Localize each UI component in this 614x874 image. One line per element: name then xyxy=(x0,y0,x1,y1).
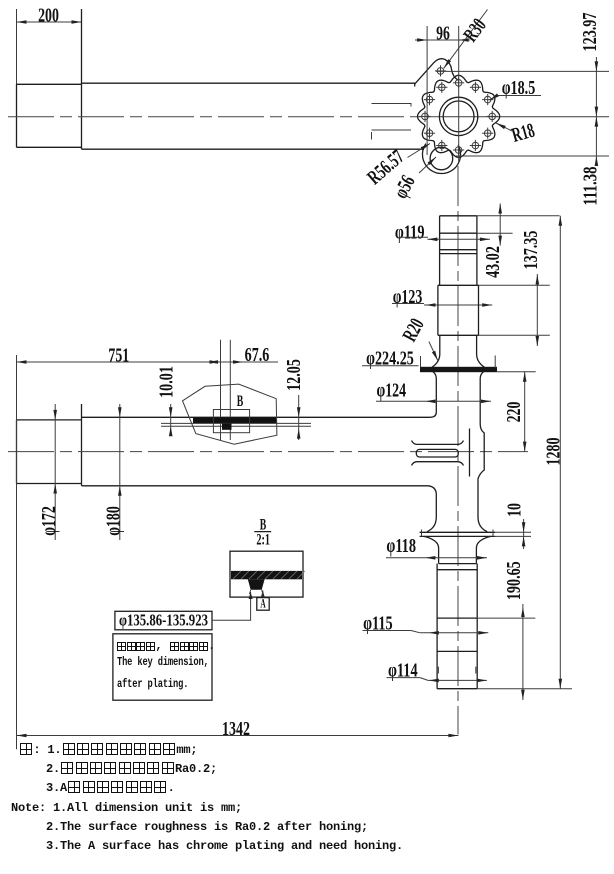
step line phi114 xyxy=(437,650,477,652)
dimension 1280 line with arrows xyxy=(559,216,561,689)
extension line from ear hole to right edge xyxy=(436,70,609,72)
dimension 200 line with arrows xyxy=(17,21,82,23)
dimension 200 extension line left xyxy=(16,9,18,147)
note box line 1 chinese: key dimension after plating xyxy=(117,639,215,653)
svg-text:φ135.86-135.923: φ135.86-135.923 xyxy=(119,611,208,630)
svg-text:φ224.25: φ224.25 xyxy=(366,348,414,370)
dimension phi180 line with arrows xyxy=(119,404,121,540)
top view tube main body xyxy=(82,9,425,149)
svg-text:200: 200 xyxy=(38,4,59,26)
shaft bottom edge xyxy=(437,688,477,690)
shaft flare to lower flange right xyxy=(478,517,487,532)
svg-text:φ118: φ118 xyxy=(386,535,416,557)
notes english line 3 xyxy=(46,839,403,853)
flange scalloped outline xyxy=(418,75,500,157)
leader from box to detail xyxy=(212,592,251,620)
svg-text:A: A xyxy=(260,596,266,611)
flange center bore outer circle xyxy=(439,97,477,135)
svg-text:R20: R20 xyxy=(399,315,429,345)
dimension 96 line with arrows xyxy=(415,39,470,41)
shaft flare to lower flange left xyxy=(427,517,436,532)
notes chinese line 3 xyxy=(46,781,175,795)
extension line step for 137.35 bottom xyxy=(479,334,550,336)
tube to shaft bottom fillet and shaft left edge xyxy=(429,486,437,517)
note box key dimension xyxy=(113,634,212,700)
neck below lower flange xyxy=(424,536,491,563)
svg-text:R18: R18 xyxy=(509,120,537,147)
front view center line xyxy=(8,451,528,453)
weld seam thin lines extending xyxy=(161,422,311,424)
dimension 67.6 extension lines xyxy=(220,340,222,440)
svg-text:φ180: φ180 xyxy=(103,506,125,536)
shaft groove lines top section xyxy=(440,232,477,234)
svg-text:1342: 1342 xyxy=(222,718,250,740)
detail B outer rectangle xyxy=(230,551,303,597)
front view tube main body outline xyxy=(82,404,431,486)
svg-text:220: 220 xyxy=(503,402,525,423)
detail B heptagon boundary xyxy=(183,384,277,444)
dimension 43.02 line with arrows xyxy=(499,204,501,246)
flange ear lobe top-left with transition to tube xyxy=(415,59,458,84)
top view center line right solid through flange xyxy=(440,116,609,118)
svg-text:137.35: 137.35 xyxy=(520,231,542,270)
dimension 751 line xyxy=(17,361,220,363)
lower flange plate end ticks xyxy=(421,530,423,537)
svg-text:10: 10 xyxy=(504,503,526,517)
svg-text:2:1: 2:1 xyxy=(256,531,270,548)
dimension 10 line with arrows xyxy=(523,519,525,549)
left extension line bottom half xyxy=(16,355,18,749)
step line phi115 xyxy=(437,617,477,619)
detail B trapezoid notch xyxy=(248,579,265,590)
extension line for 190.65 top xyxy=(477,617,535,619)
detail B rectangle box xyxy=(213,410,249,433)
tube inner bore hidden lines near flange xyxy=(372,104,412,140)
dimension 96 extension lines xyxy=(426,26,428,155)
upper flange plate end ticks xyxy=(420,356,422,367)
dimension 10.01 line with arrows xyxy=(170,404,172,435)
bushing pill rounded rect xyxy=(416,449,458,457)
chamfer tick lines near bottom xyxy=(437,667,439,674)
notes english line 2 xyxy=(46,820,368,834)
bushing lower line with end hooks xyxy=(412,462,464,466)
svg-text:43.02: 43.02 xyxy=(482,246,504,278)
notes chinese line 1 xyxy=(19,743,197,757)
dimension 190.65 line with arrows xyxy=(522,604,524,700)
svg-text:φ119: φ119 xyxy=(395,221,425,243)
detail B hatched chrome band xyxy=(231,571,302,579)
dimension 12.05 line with arrows xyxy=(298,395,300,440)
flange bottom boss arc R56.57 xyxy=(423,144,461,174)
upper flange plate phi224.25 filled xyxy=(421,367,497,371)
shaft lower cylinder outline xyxy=(437,564,477,689)
svg-text:190.65: 190.65 xyxy=(503,561,525,600)
svg-text:12.05: 12.05 xyxy=(283,359,305,391)
extension line groove for 43.02 xyxy=(477,232,513,234)
flange center bore inner circle xyxy=(443,101,474,132)
neck step lines xyxy=(439,563,477,565)
svg-text:1280: 1280 xyxy=(543,438,565,466)
leader R30 to ear hole xyxy=(444,10,488,69)
flange bolt holes 12x with crosshairs xyxy=(455,80,462,87)
svg-text:96: 96 xyxy=(436,22,450,44)
extension shaft bottom to 1280 line xyxy=(477,688,572,690)
extension line flange bottom right for 220 xyxy=(497,371,536,373)
svg-text:φ123: φ123 xyxy=(393,286,423,308)
flange ear bolt hole xyxy=(437,68,444,75)
svg-text:φ124: φ124 xyxy=(377,380,407,402)
notes chinese line 2 xyxy=(46,762,217,776)
extension line step for 137.35 top xyxy=(479,284,550,286)
tube end vertical line inside shaft xyxy=(469,429,471,477)
svg-text:φ172: φ172 xyxy=(38,506,60,536)
note box line 3 xyxy=(117,678,188,691)
shaft phi124 section below flange left edge xyxy=(430,372,436,418)
lower flange plate lines xyxy=(420,531,495,533)
dimension 220 line with arrows xyxy=(524,372,526,452)
top view tube small end cap xyxy=(17,84,82,147)
note box line 2 xyxy=(117,656,209,669)
notes english line 1 xyxy=(11,801,242,815)
svg-text:123.97: 123.97 xyxy=(579,13,601,52)
dimension 123.97 / 111.38 shared line with arrows xyxy=(595,57,597,166)
dimension phi172 line with arrows xyxy=(54,404,56,540)
svg-text:111.38: 111.38 xyxy=(580,167,602,206)
svg-text:φ115: φ115 xyxy=(363,613,393,635)
svg-text:67.6: 67.6 xyxy=(245,344,270,366)
shaft top section phi119 outline xyxy=(440,216,477,285)
svg-text:10.01: 10.01 xyxy=(156,366,178,398)
weld seam small black square xyxy=(222,423,232,429)
detail B notch bottom marks xyxy=(250,590,263,594)
extension shaft top to 1280 line xyxy=(477,215,560,217)
top view center line xyxy=(8,116,440,118)
label A box with arrow xyxy=(261,591,265,598)
vertical shaft center line xyxy=(457,166,459,734)
svg-text:751: 751 xyxy=(108,345,129,367)
svg-text:B: B xyxy=(237,393,244,410)
shaft neck below phi123 xyxy=(432,335,484,367)
dimension 137.35 line with arrows xyxy=(536,274,538,346)
bushing upper line with end hooks xyxy=(412,441,464,445)
shaft phi124 section below flange right edge with jog xyxy=(478,372,484,517)
dimension 67.6 line with outside arrows xyxy=(207,361,278,363)
extension line flange bottom to right edge xyxy=(456,155,609,157)
extension lower flange right xyxy=(495,531,531,533)
dimension 1342 line with arrows xyxy=(17,735,459,737)
shaft section phi123 outline xyxy=(438,285,479,335)
front view tube left end cap xyxy=(17,420,82,484)
dimension box phi135.86-135.923 xyxy=(115,611,212,630)
weld seam black band xyxy=(193,418,277,424)
svg-text:φ56: φ56 xyxy=(390,172,420,202)
phi56 hole circle xyxy=(430,147,453,170)
